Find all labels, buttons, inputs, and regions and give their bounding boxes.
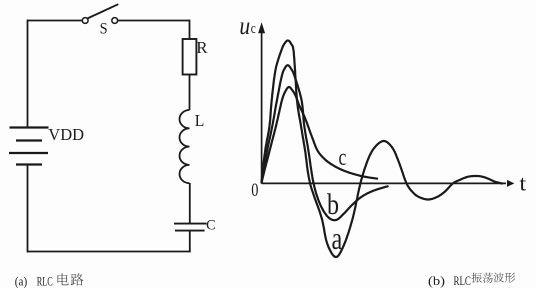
svg-text:0: 0 — [251, 181, 258, 201]
battery VDD plate 1 (long) — [10, 126, 49, 128]
caption (a) hanzi lu (circuit) — [71, 273, 84, 285]
x-axis line — [262, 182, 506, 184]
svg-text:(b): (b) — [428, 273, 445, 288]
inductor L coil (4 arcs) — [180, 110, 190, 183]
svg-text:b: b — [327, 188, 339, 221]
wire bottom rail — [28, 251, 191, 253]
svg-text:S: S — [100, 20, 108, 37]
wire from inductor to capacitor — [189, 183, 191, 224]
caption (a) hanzi dian (electric) — [57, 273, 68, 285]
capacitor C top plate — [174, 223, 207, 225]
switch S left terminal circle — [82, 18, 88, 24]
svg-text:RLC: RLC — [454, 273, 471, 288]
wire from capacitor to bottom rail — [189, 231, 191, 252]
svg-text:a: a — [332, 220, 343, 256]
svg-text:u: u — [239, 13, 250, 40]
y-axis arrowhead — [258, 22, 265, 33]
y-axis line — [261, 30, 263, 184]
switch S right terminal circle — [112, 18, 118, 24]
caption (b) hanzi xing — [505, 273, 516, 283]
svg-text:VDD: VDD — [48, 125, 84, 144]
svg-text:R: R — [196, 38, 207, 57]
wire left rail lower (battery to bottom corner) — [27, 165, 29, 253]
battery VDD plate 4 (short) — [16, 163, 42, 165]
svg-text:c: c — [251, 21, 256, 37]
caption (b) hanzi bo — [494, 273, 504, 283]
wire left rail upper (top corner to battery) — [27, 20, 29, 128]
capacitor C bottom plate — [175, 230, 205, 232]
curve a (underdamped oscillation) — [262, 41, 504, 258]
wire from resistor to inductor — [189, 75, 191, 111]
svg-text:(a): (a) — [15, 274, 27, 289]
curve c (overdamped) — [262, 87, 379, 183]
caption (b) hanzi zhen — [472, 273, 482, 283]
resistor R body — [183, 39, 197, 75]
svg-text:c: c — [339, 145, 347, 171]
wire top horizontal from switch to top-right corner — [118, 20, 190, 22]
svg-text:t: t — [519, 170, 526, 195]
svg-text:L: L — [195, 111, 205, 130]
svg-text:C: C — [206, 218, 216, 234]
curve b (critically damped-ish) — [262, 65, 389, 220]
svg-text:RLC: RLC — [37, 274, 53, 289]
wire right rail: corner down to resistor — [189, 20, 191, 39]
x-axis arrowhead — [507, 180, 514, 187]
wire top-left horizontal from left rail to switch — [28, 20, 83, 22]
switch S blade — [88, 4, 119, 18]
battery VDD plate 2 (short) — [16, 139, 42, 141]
battery VDD plate 3 (long) — [9, 152, 48, 154]
caption (b) hanzi dang — [483, 273, 493, 283]
